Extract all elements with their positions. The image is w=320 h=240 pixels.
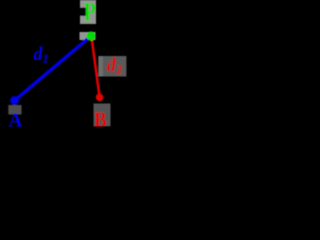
svg-text:B: B bbox=[94, 109, 107, 132]
svg-text:P: P bbox=[84, 0, 96, 26]
svg-text:A: A bbox=[9, 109, 23, 132]
